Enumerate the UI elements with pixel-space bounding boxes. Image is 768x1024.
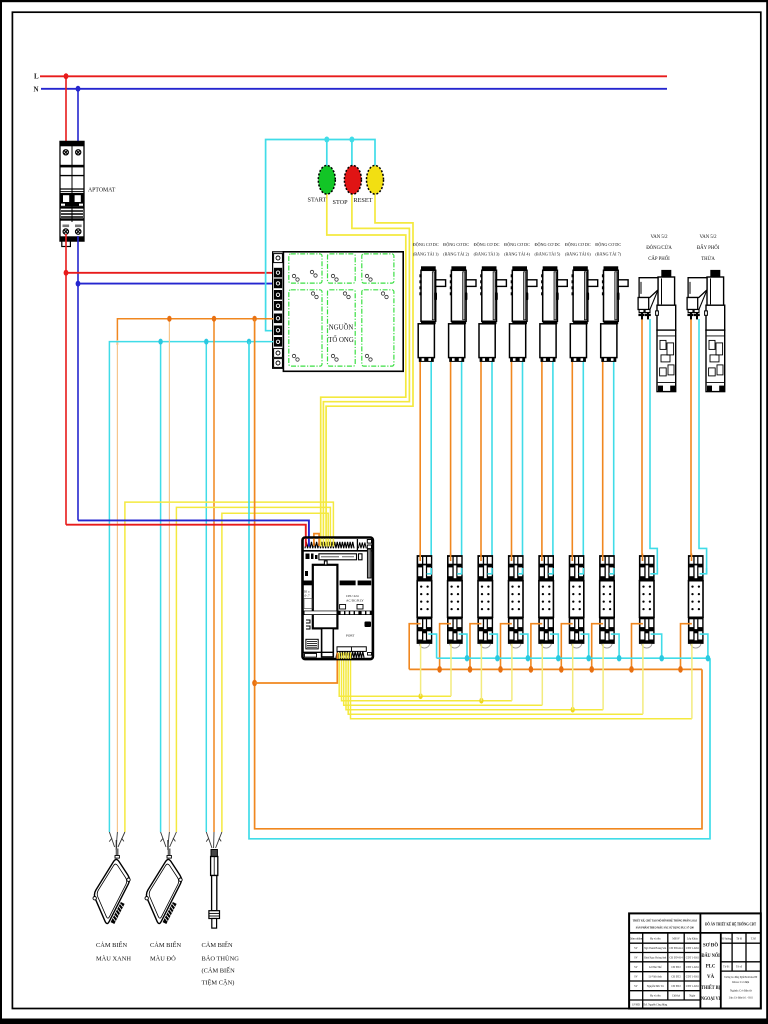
- wire orange motor4 to relay: [511, 362, 513, 562]
- svg-text:MÀU XANH: MÀU XANH: [96, 955, 131, 963]
- wire yellow from stop: [323, 194, 409, 547]
- wire orange jumper on PLC top: [314, 534, 319, 546]
- wire L drop to aptomat: [65, 76, 67, 152]
- wire cyan relay6 top stub: [579, 568, 584, 574]
- wire cyan motor1 to relay: [430, 362, 432, 574]
- svg-text:THIẾT KẾ, CHẾ TẠO MÔ HÌNH HỆ T: THIẾT KẾ, CHẾ TẠO MÔ HÌNH HỆ THỐNG PHÂN …: [633, 919, 698, 923]
- wire yellow relay4 coil: [511, 644, 513, 701]
- svg-text:SV: SV: [634, 947, 637, 950]
- svg-text:ĐỘNG CƠ DC: ĐỘNG CƠ DC: [534, 242, 560, 247]
- wire yellow relay6 coil: [572, 644, 574, 710]
- svg-text:ĐỘNG CƠ DC: ĐỘNG CƠ DC: [474, 242, 500, 247]
- svg-text:T.Số: T.Số: [751, 938, 757, 941]
- svg-text:CĐ ĐT4-K4: CĐ ĐT4-K4: [670, 947, 684, 950]
- svg-text:MÀU ĐỎ: MÀU ĐỎ: [150, 955, 176, 963]
- wire red to PLC L+: [66, 525, 306, 546]
- svg-text:Lê Việt Anh: Lê Việt Anh: [649, 975, 663, 978]
- junction cyan bus k3: [495, 655, 500, 661]
- svg-text:L: L: [34, 73, 39, 81]
- svg-text:ĐỘNG CƠ DC: ĐỘNG CƠ DC: [595, 242, 621, 247]
- svg-text:Lớp Khóa: Lớp Khóa: [687, 938, 699, 941]
- wire orange relay5 top stub: [541, 554, 543, 562]
- svg-text:SV: SV: [634, 966, 637, 969]
- wire cyan relay8 top stub: [650, 568, 657, 574]
- junction cyan bus k5: [556, 655, 561, 661]
- svg-text:SV: SV: [634, 985, 637, 988]
- wire cyan motor6 to relay: [582, 362, 584, 574]
- svg-text:SV: SV: [634, 975, 637, 978]
- relay K4: [508, 555, 524, 648]
- wire cyan motor3 to relay: [491, 362, 493, 574]
- wire orange relay6 bottom to bus: [561, 624, 572, 670]
- svg-text:(BĂNG TẢI 2): (BĂNG TẢI 2): [443, 252, 469, 257]
- wire N drop to aptomat: [77, 89, 79, 152]
- sensor2 wire fan: [160, 832, 176, 850]
- wire orange relay7 bottom to bus: [592, 624, 603, 670]
- pushbutton RESET: [367, 166, 384, 195]
- svg-text:Nguyễn Đức Tú: Nguyễn Đức Tú: [647, 985, 665, 988]
- relay K7: [599, 555, 615, 648]
- wire cyan drop to stop: [351, 140, 353, 167]
- wire orange motor6 to relay: [571, 362, 573, 562]
- dc motor M4: [510, 266, 537, 362]
- junction orange bus k8: [629, 666, 634, 673]
- relay K6: [569, 555, 585, 648]
- color sensor CB1: [93, 849, 130, 925]
- svg-text:NGUỒN: NGUỒN: [329, 324, 354, 332]
- svg-text:CẤP PHỐI: CẤP PHỐI: [648, 256, 670, 262]
- junction orange bus k9: [678, 666, 683, 673]
- svg-text:.0-.7: .0-.7: [304, 594, 310, 598]
- relay K8: [639, 555, 655, 648]
- svg-text:N: N: [34, 86, 39, 94]
- proximity sensor CB3: [209, 850, 220, 929]
- junction cyan bus k6: [586, 655, 591, 661]
- label truong cao dang: [724, 975, 758, 1000]
- wire yellow PLC output 2: [342, 655, 512, 701]
- wire cyan relay bus: [437, 657, 710, 659]
- wire L below aptomat: [65, 234, 67, 525]
- relay K9: [688, 555, 704, 648]
- svg-text:ĐỘNG CƠ DC: ĐỘNG CƠ DC: [413, 242, 439, 247]
- page outer edge top: [0, 0, 768, 2]
- svg-text:Ngô Thanh Hoàng Sơn: Ngô Thanh Hoàng Sơn: [644, 947, 667, 950]
- svg-text:CĐ ĐT4-K4: CĐ ĐT4-K4: [670, 956, 684, 959]
- svg-text:Tờ số: Tờ số: [736, 966, 743, 969]
- junction yellow nest 4: [571, 707, 575, 713]
- wire cyan relay2 top stub: [457, 568, 462, 574]
- wire orange relay1 top stub: [419, 554, 421, 562]
- dc motor M7: [601, 266, 628, 362]
- svg-text:MSSV: MSSV: [672, 938, 679, 941]
- svg-text:CĐT 1-K61: CĐT 1-K61: [686, 985, 700, 988]
- wire yellow PLC output 1: [339, 655, 451, 696]
- wire orange sensor bus to power supply: [117, 319, 273, 345]
- wire orange riser sensor2: [168, 319, 170, 832]
- wire orange relay3 top stub: [480, 554, 482, 562]
- wire yellow relay3 coil: [480, 644, 482, 701]
- wire cyan relay7 top stub: [609, 568, 614, 574]
- svg-text:CĐT 1-K61: CĐT 1-K61: [686, 956, 700, 959]
- sensor3 wire fan: [206, 832, 222, 848]
- junction orange loop to PLC: [252, 680, 257, 686]
- solenoid valve V2: [687, 270, 725, 392]
- page outer edge bottom thick: [0, 1019, 768, 1024]
- svg-text:NGOẠI VI: NGOẠI VI: [701, 997, 720, 1002]
- junction blue branch: [76, 281, 81, 287]
- svg-text:CĐT 1-K61: CĐT 1-K61: [686, 975, 700, 978]
- junction orange bus k3: [468, 666, 473, 673]
- junction orange s3: [212, 316, 216, 322]
- wire orange relay8 bottom to bus: [632, 624, 643, 670]
- svg-text:(BĂNG TẢI 7): (BĂNG TẢI 7): [595, 252, 621, 257]
- svg-text:PLC: PLC: [706, 965, 716, 970]
- wire orange relay6 top stub: [571, 554, 573, 562]
- svg-text:VAN 5/2: VAN 5/2: [699, 235, 717, 240]
- wire orange relay3 bottom to bus: [470, 624, 481, 670]
- wire yellow relay5 coil: [541, 644, 543, 705]
- svg-text:CĐ ĐT2: CĐ ĐT2: [671, 985, 681, 988]
- wire yellow relay2 coil: [450, 644, 452, 696]
- svg-text:START: START: [308, 197, 327, 204]
- wire orange relay7 top stub: [602, 554, 604, 562]
- svg-text:CẢM BIẾN: CẢM BIẾN: [202, 941, 233, 949]
- relay K5: [538, 555, 554, 648]
- svg-text:(BĂNG TẢI 1): (BĂNG TẢI 1): [413, 252, 439, 257]
- junction cyan start: [324, 137, 329, 143]
- wire orange valve1 to relay: [641, 319, 643, 561]
- svg-text:ĐẨY PHỐI: ĐẨY PHỐI: [697, 245, 720, 251]
- wire cyan valve2 to relay: [699, 319, 707, 574]
- junction N-aptomat: [76, 86, 81, 92]
- svg-text:SẢN PHẨM THEO MÀU SẮC SỬ DỤNG: SẢN PHẨM THEO MÀU SẮC SỬ DỤNG PLC S7-200: [636, 926, 694, 930]
- svg-text:VAN 5/2: VAN 5/2: [650, 235, 668, 240]
- junction cyan bus k8: [659, 655, 664, 661]
- wire yellow relay7 coil: [602, 644, 604, 710]
- wire orange relay8 top stub: [642, 554, 644, 562]
- wire cyan riser sensor3: [205, 342, 207, 832]
- wire orange riser sensor1: [116, 340, 118, 832]
- junction cyan bus k4: [526, 655, 531, 661]
- wire orange loop to PLC M: [255, 655, 338, 683]
- wire cyan button bus: [266, 140, 375, 331]
- dc motor M5: [540, 266, 567, 362]
- svg-text:ThS. Nguyễn Công Hùng: ThS. Nguyễn Công Hùng: [643, 1004, 668, 1007]
- PLC S7-200: [303, 538, 373, 660]
- svg-text:(BĂNG TẢI 6): (BĂNG TẢI 6): [565, 252, 591, 257]
- svg-text:ĐỒ ÁN THIẾT KẾ HỆ THỐNG CĐT: ĐỒ ÁN THIẾT KẾ HỆ THỐNG CĐT: [705, 922, 756, 927]
- svg-text:(BĂNG TẢI 3): (BĂNG TẢI 3): [474, 252, 500, 257]
- svg-text:Họ và tên: Họ và tên: [650, 938, 661, 941]
- wire orange relay bus: [409, 668, 702, 670]
- wire orange big loop: [255, 319, 702, 829]
- wire orange relay4 top stub: [511, 554, 513, 562]
- title block: [629, 913, 761, 1008]
- wire cyan big loop: [249, 342, 710, 839]
- wire orange relay1 bottom to bus: [409, 624, 420, 670]
- svg-text:Trường Cao Đẳng Nghề Bách Khoa: Trường Cao Đẳng Nghề Bách Khoa HN: [724, 975, 758, 979]
- wire orange relay2 top stub: [450, 554, 452, 562]
- svg-text:(CẢM BIẾN: (CẢM BIẾN: [202, 967, 236, 975]
- wire cyan drop to start: [326, 140, 328, 167]
- wire yellow PLC output 3: [344, 655, 543, 705]
- wire yellow sensor1 to PLC: [125, 502, 334, 832]
- junction orange bus k5: [529, 666, 534, 673]
- wire yellow from reset: [326, 194, 413, 547]
- junction L-aptomat: [64, 73, 69, 79]
- svg-text:STOP: STOP: [333, 199, 349, 206]
- wire cyan relay6 bottom to bus: [580, 634, 588, 658]
- wire cyan motor7 to relay: [613, 362, 615, 574]
- svg-text:BÁO THÙNG: BÁO THÙNG: [202, 955, 240, 963]
- wire orange relay9 top stub: [691, 554, 693, 562]
- wire red to power supply: [66, 272, 274, 274]
- sensor1 wire fan: [109, 832, 125, 850]
- junction orange bus k2: [437, 666, 442, 673]
- wire orange motor5 to relay: [541, 362, 543, 562]
- svg-text:Ngày: Ngày: [689, 995, 695, 998]
- junction orange bus k4: [498, 666, 503, 673]
- junction orange s2: [167, 316, 171, 322]
- solenoid valve V1: [638, 270, 676, 392]
- power supply terminal strip: [273, 252, 284, 368]
- svg-text:CĐT 1-K61: CĐT 1-K61: [686, 966, 700, 969]
- svg-text:SƠ ĐỒ: SƠ ĐỒ: [703, 943, 718, 949]
- wire cyan relay9 top stub: [700, 568, 707, 574]
- junction orange bus k7: [589, 666, 594, 673]
- wire cyan motor4 to relay: [522, 362, 524, 574]
- junction orange bus k6: [559, 666, 564, 673]
- pushbutton START: [318, 166, 335, 195]
- wire N neutral line: [41, 88, 667, 90]
- wire blue to PLC M: [78, 520, 309, 546]
- wire cyan relay9 bottom to bus: [700, 634, 708, 658]
- wire yellow PLC output 5: [348, 655, 643, 714]
- wire cyan motor2 to relay: [461, 362, 463, 574]
- svg-text:ĐỘNG CƠ DC: ĐỘNG CƠ DC: [443, 242, 469, 247]
- junction cyan stop: [349, 137, 354, 143]
- svg-text:(BĂNG TẢI 4): (BĂNG TẢI 4): [504, 252, 530, 257]
- relay K3: [477, 555, 493, 648]
- page outer edge left: [0, 0, 2, 1024]
- wire cyan sensor bus to power supply: [109, 342, 273, 832]
- svg-text:CẢM BIẾN: CẢM BIẾN: [150, 941, 181, 949]
- dc motor M6: [570, 266, 597, 362]
- wire orange relay4 bottom to bus: [501, 624, 512, 670]
- power supply box NGUON TO ONG: [283, 252, 403, 371]
- color sensor CB2: [145, 849, 182, 925]
- wire cyan relay5 bottom to bus: [550, 634, 558, 658]
- junction red branch: [64, 270, 69, 276]
- junction cyan s3: [204, 339, 208, 345]
- junction yellow nest 2: [479, 698, 483, 704]
- svg-text:ĐẤU NỐI: ĐẤU NỐI: [701, 953, 720, 959]
- svg-text:TIỆM CẬN): TIỆM CẬN): [202, 979, 235, 987]
- wire yellow relay9 coil: [691, 644, 693, 719]
- junction cyan bus k9: [706, 655, 711, 661]
- wire yellow relay1 coil: [420, 644, 422, 696]
- wire orange relay9 bottom to bus: [681, 624, 692, 670]
- svg-text:AC/DC/RLY: AC/DC/RLY: [346, 599, 364, 603]
- junction orange loop: [252, 316, 256, 322]
- wire orange motor1 to relay: [419, 362, 421, 562]
- junction yellow nest 1: [419, 693, 423, 699]
- wire cyan riser sensor2: [160, 342, 162, 832]
- pushbutton STOP: [344, 166, 361, 195]
- svg-text:Lê Phú Thế: Lê Phú Thế: [649, 966, 662, 969]
- wire orange motor3 to relay: [480, 362, 482, 562]
- svg-text:Đảm nhiệm: Đảm nhiệm: [630, 938, 644, 941]
- wire cyan relay3 bottom to bus: [489, 634, 497, 658]
- svg-text:ĐỘNG CƠ DC: ĐỘNG CƠ DC: [504, 242, 530, 247]
- wire cyan relay7 bottom to bus: [611, 634, 619, 658]
- svg-text:(BĂNG TẢI 5): (BĂNG TẢI 5): [535, 252, 561, 257]
- wire N below aptomat: [77, 236, 79, 520]
- wire cyan motor5 to relay: [552, 362, 554, 574]
- wire orange relay5 bottom to bus: [531, 624, 542, 670]
- wire cyan relay4 bottom to bus: [520, 634, 528, 658]
- wire orange motor2 to relay: [450, 362, 452, 562]
- svg-text:PORT: PORT: [346, 634, 355, 638]
- wire cyan relay4 top stub: [518, 568, 523, 574]
- svg-text:CPU 224: CPU 224: [346, 594, 359, 598]
- svg-text:THỪA: THỪA: [701, 256, 715, 262]
- svg-text:CĐ ĐT2: CĐ ĐT2: [671, 975, 681, 978]
- wire orange motor7 to relay: [602, 362, 604, 562]
- svg-text:Đinh Ngọc Hoàng Anh: Đinh Ngọc Hoàng Anh: [644, 956, 667, 959]
- wire cyan relay5 top stub: [548, 568, 553, 574]
- svg-text:ĐÓNG/CỬA: ĐÓNG/CỬA: [646, 245, 672, 251]
- wire cyan relay8 bottom to bus: [651, 634, 662, 658]
- wire orange riser sensor3: [213, 319, 215, 832]
- svg-text:RESET: RESET: [354, 197, 373, 204]
- wire yellow from start: [321, 194, 406, 547]
- svg-text:ĐỘNG CƠ DC: ĐỘNG CƠ DC: [565, 242, 591, 247]
- svg-text:CĐT 1-K61: CĐT 1-K61: [686, 947, 700, 950]
- page outer edge right: [766, 0, 768, 1024]
- svg-text:GVHD: GVHD: [632, 1004, 640, 1007]
- svg-text:Lớp: Cơ điện tử 1 - K61: Lớp: Cơ điện tử 1 - K61: [729, 996, 753, 1000]
- svg-text:VÀ: VÀ: [707, 974, 715, 980]
- dc motor M2: [449, 266, 476, 362]
- svg-text:CẢM BIẾN: CẢM BIẾN: [96, 941, 127, 949]
- wire cyan relay1 top stub: [427, 568, 432, 574]
- wire blue to power supply: [78, 283, 274, 285]
- svg-text:APTOMAT: APTOMAT: [88, 188, 116, 194]
- wire stubs entering PLC top: [306, 539, 334, 547]
- circuit breaker APTOMAT: [60, 141, 85, 246]
- svg-text:Chữ ký: Chữ ký: [672, 995, 681, 998]
- wire yellow sensor3 to PLC: [222, 513, 328, 832]
- svg-text:TỔ ONG: TỔ ONG: [328, 336, 354, 344]
- svg-text:THIẾT BỊ: THIẾT BỊ: [701, 985, 720, 991]
- relay K2: [447, 555, 463, 648]
- svg-text:CĐ ĐT2: CĐ ĐT2: [671, 966, 681, 969]
- junction cyan bus k7: [617, 655, 622, 661]
- label so do dau noi: [701, 943, 720, 1003]
- svg-text:Khoa: Cơ điện: Khoa: Cơ điện: [732, 980, 749, 984]
- wire yellow PLC output 6: [351, 655, 692, 719]
- svg-text:Tỷ lệ: Tỷ lệ: [736, 938, 742, 941]
- wire cyan valve1 to relay: [650, 319, 657, 574]
- wire yellow PLC output 4: [346, 655, 603, 710]
- wire orange valve2 to relay: [690, 319, 692, 561]
- svg-text:Ngành: Cơ điện tử: Ngành: Cơ điện tử: [730, 989, 752, 993]
- svg-text:Họ và tên: Họ và tên: [650, 995, 661, 998]
- wire orange relay2 bottom to bus: [440, 624, 451, 670]
- wire L phase line: [40, 75, 667, 77]
- relay K1: [417, 555, 433, 648]
- wire yellow sensor2 to PLC: [176, 507, 330, 832]
- junction cyan bus k2: [465, 655, 470, 661]
- dc motor M3: [479, 266, 506, 362]
- wire yellow relay8 coil: [642, 644, 644, 714]
- wire cyan relay2 bottom to bus: [459, 634, 467, 658]
- svg-text:SV: SV: [634, 956, 637, 959]
- svg-text:Số lượng: Số lượng: [721, 938, 731, 941]
- svg-text:Tờ 01: Tờ 01: [723, 966, 730, 969]
- junction cyan s2: [158, 339, 162, 345]
- wire stubs leaving PLC bottom: [337, 653, 350, 659]
- wire cyan relay3 top stub: [488, 568, 493, 574]
- junction cyan loop: [247, 339, 251, 345]
- dc motor M1: [418, 266, 445, 362]
- wire cyan relay1 bottom to bus: [428, 634, 436, 658]
